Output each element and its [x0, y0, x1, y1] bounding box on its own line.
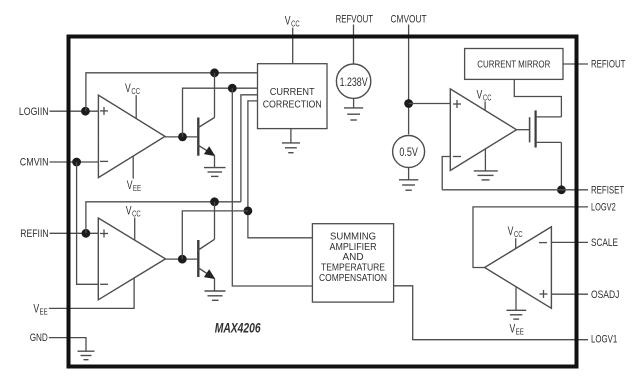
svg-text:V: V [33, 301, 39, 315]
pin label SCALE [591, 237, 618, 249]
svg-text:EE: EE [133, 183, 141, 193]
wire REFIIN input lead [50, 232, 99, 234]
svg-text:MAX4206: MAX4206 [215, 321, 261, 336]
svg-text:CMVOUT: CMVOUT [391, 14, 427, 26]
wire CMVIN input lead [50, 161, 99, 163]
pin label REFIIN [20, 228, 48, 240]
transistor Q2 [198, 202, 216, 291]
svg-text:CC: CC [291, 19, 300, 29]
wire OSADJ [551, 293, 588, 295]
wire pin2 net down to summing input 2 [232, 88, 312, 286]
wire GND input lead [49, 338, 86, 351]
wire current mirror to MOSFET drain [514, 79, 561, 117]
svg-text:V: V [477, 87, 483, 101]
label U4 VCC [477, 87, 492, 110]
node Q1 collector junction [210, 68, 219, 77]
pin label REFIOUT [591, 59, 626, 71]
svg-text:CC: CC [132, 209, 141, 219]
svg-text:GND: GND [30, 332, 48, 344]
op-amp U1 [98, 95, 165, 178]
pin REFVOUT top [336, 14, 374, 64]
wire CMVOUT to U4 noninverting input [409, 103, 451, 105]
svg-text:V: V [125, 81, 131, 95]
node CMVOUT junction [404, 99, 413, 108]
svg-text:V: V [126, 204, 132, 218]
source V2 0.5V [393, 136, 425, 168]
svg-text:V: V [510, 321, 516, 335]
ground Q2 emitter [205, 291, 226, 300]
wire LOGIIN input lead [50, 110, 99, 112]
node U1 output junction [178, 133, 187, 142]
svg-text:CMVIN: CMVIN [20, 157, 49, 169]
pin label LOGIIN [19, 106, 49, 118]
svg-text:CC: CC [483, 92, 492, 102]
svg-text:V: V [285, 14, 291, 28]
svg-text:LOGIIN: LOGIIN [19, 106, 49, 118]
wire current correction pin3 drop [241, 95, 258, 202]
svg-text:CURRENT MIRROR: CURRENT MIRROR [477, 59, 550, 71]
node pin2 junction [228, 84, 237, 93]
wire summing output to LOGV1 [394, 286, 588, 340]
svg-text:REFISET: REFISET [591, 184, 624, 196]
svg-text:COMPENSATION: COMPENSATION [319, 272, 387, 284]
wire REFIIN net up and over [86, 202, 241, 234]
svg-text:REFVOUT: REFVOUT [336, 14, 374, 26]
node Q2 collector junction [210, 197, 219, 206]
block CURRENT MIRROR [465, 49, 563, 80]
wire U4 feedback to REFISET [442, 157, 450, 190]
pin label GND [30, 332, 48, 344]
svg-text:OSADJ: OSADJ [591, 289, 619, 301]
block SUMMING AMPLIFIER [312, 224, 393, 302]
node LOGIIN junction [81, 107, 90, 116]
svg-text:EE: EE [516, 326, 524, 336]
wire VEE input lead [49, 278, 134, 308]
label U1 VEE [127, 156, 142, 193]
svg-text:REFIOUT: REFIOUT [591, 59, 626, 71]
wire REFISET [442, 189, 588, 191]
ground V1 [344, 99, 363, 120]
svg-text:1.238V: 1.238V [340, 77, 368, 89]
svg-text:CC: CC [514, 229, 523, 239]
svg-text:CURRENT: CURRENT [270, 86, 316, 98]
wire U2 output net up to pin4 drop [182, 211, 248, 259]
transistor M1 MOSFET [530, 110, 562, 189]
svg-text:V: V [127, 178, 133, 192]
node U2 output junction [178, 255, 187, 264]
pin label CMVIN [20, 157, 49, 169]
wire U4 output to gate [517, 129, 530, 131]
ground Q1 emitter [204, 168, 226, 177]
IC boundary [69, 37, 577, 367]
svg-text:CC: CC [131, 86, 140, 96]
node REFIIN junction [82, 229, 91, 238]
op-amp U4 [450, 89, 516, 171]
wire U3 output to LOGV2 [473, 207, 588, 268]
pin CMVOUT top [391, 14, 427, 135]
ground U3 VEE [506, 287, 526, 337]
label U1 VCC [125, 81, 140, 118]
svg-text:EE: EE [40, 306, 48, 316]
block CURRENT CORRECTION [258, 64, 328, 129]
pin label LOGV1 [591, 334, 617, 346]
wire U1 output [165, 136, 197, 138]
wire CMVIN net down to U2 inverting input [77, 162, 99, 284]
ground U4 [474, 149, 498, 180]
node pin4 junction with U2 output net [244, 207, 253, 216]
wire REFIOUT from current mirror [563, 63, 588, 65]
op-amp U2 [98, 218, 165, 300]
pin label REFISET [591, 184, 624, 196]
svg-text:V: V [508, 224, 514, 238]
transistor Q1 [198, 73, 216, 167]
ground GND pin symbol [78, 351, 95, 360]
pin label VEE [33, 301, 48, 316]
pin label OSADJ [591, 289, 619, 301]
svg-text:LOGV2: LOGV2 [591, 201, 616, 213]
svg-text:0.5V: 0.5V [399, 147, 418, 159]
source V1 1.238V [336, 64, 370, 98]
op-amp U3 [485, 227, 552, 308]
svg-text:SCALE: SCALE [591, 237, 618, 249]
svg-text:LOGV1: LOGV1 [591, 334, 617, 346]
node CMVIN junction [72, 158, 81, 167]
label MAX4206 [215, 321, 261, 336]
svg-text:REFIIN: REFIIN [20, 228, 48, 240]
label U2 VCC [126, 204, 141, 240]
node REFISET junction [557, 185, 566, 194]
label U3 VCC [508, 224, 523, 248]
svg-text:CORRECTION: CORRECTION [263, 99, 322, 111]
wire LOGIIN net up and over to current correction [86, 73, 258, 111]
wire SCALE [551, 241, 588, 243]
ground current correction [282, 129, 300, 153]
pin VCC top [285, 14, 300, 64]
wire U2 output [166, 258, 198, 260]
ground V2 [399, 168, 418, 191]
pin label LOGV2 [591, 201, 616, 213]
wire current correction pin4 drop to summing input 1 [248, 101, 313, 238]
wire U1 output net to current correction pin2 [183, 88, 258, 137]
